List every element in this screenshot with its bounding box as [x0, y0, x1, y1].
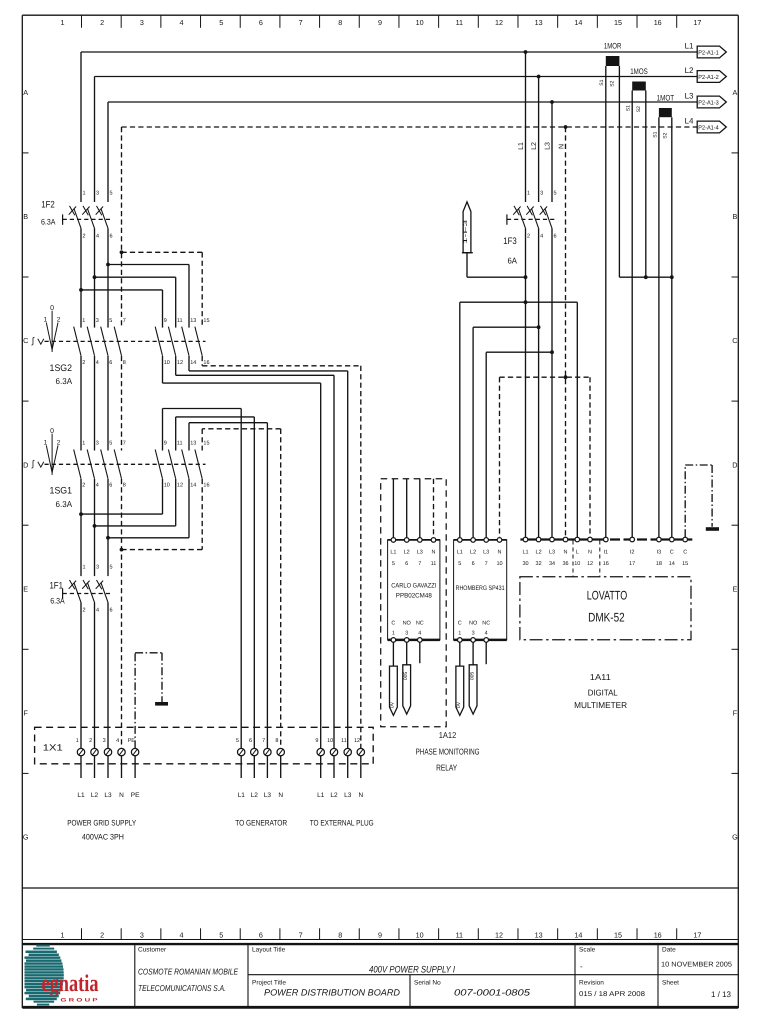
- svg-text:5: 5: [219, 930, 223, 939]
- svg-text:B: B: [23, 212, 28, 221]
- svg-text:LOVATTO: LOVATTO: [587, 589, 628, 603]
- svg-text:Sheet: Sheet: [662, 980, 679, 987]
- svg-text:I3: I3: [657, 549, 662, 555]
- svg-text:C: C: [391, 620, 395, 626]
- svg-text:S2: S2: [610, 80, 616, 86]
- svg-text:9: 9: [164, 441, 167, 447]
- svg-text:6: 6: [110, 233, 113, 239]
- svg-text:NC: NC: [416, 620, 424, 626]
- svg-text:1: 1: [61, 18, 65, 27]
- svg-text:005: 005: [469, 672, 475, 681]
- svg-text:L1: L1: [522, 549, 528, 555]
- svg-text:3: 3: [405, 630, 408, 636]
- svg-text:S1: S1: [652, 131, 658, 137]
- svg-text:1MOR: 1MOR: [604, 42, 622, 51]
- svg-text:I1: I1: [604, 549, 609, 555]
- svg-text:4: 4: [418, 630, 421, 636]
- svg-text:2: 2: [89, 738, 92, 744]
- svg-text:7: 7: [418, 561, 421, 567]
- svg-text:6: 6: [405, 561, 408, 567]
- svg-text:9: 9: [315, 738, 318, 744]
- svg-text:D: D: [23, 460, 28, 469]
- svg-text:B: B: [733, 212, 738, 221]
- svg-text:10: 10: [164, 483, 170, 489]
- svg-text:11: 11: [431, 561, 437, 567]
- svg-text:14: 14: [190, 360, 196, 366]
- svg-text:16: 16: [603, 561, 609, 567]
- svg-text:TO EXTERNAL PLUG: TO EXTERNAL PLUG: [310, 818, 374, 827]
- svg-text:5: 5: [236, 738, 239, 744]
- svg-text:10: 10: [574, 561, 580, 567]
- svg-text:N: N: [498, 549, 502, 555]
- svg-text:P2-A1-4: P2-A1-4: [698, 124, 719, 131]
- svg-text:1MOT: 1MOT: [657, 94, 675, 103]
- svg-text:1F1: 1F1: [49, 581, 63, 592]
- svg-text:DMK-52: DMK-52: [588, 611, 625, 625]
- svg-text:L1: L1: [238, 792, 246, 799]
- svg-text:1: 1: [83, 565, 86, 571]
- svg-text:13: 13: [535, 18, 543, 27]
- svg-text:PE: PE: [131, 792, 140, 799]
- svg-text:4: 4: [180, 18, 184, 27]
- svg-text:L3: L3: [104, 792, 112, 799]
- svg-text:16: 16: [654, 18, 662, 27]
- svg-text:6: 6: [109, 360, 112, 366]
- svg-text:7: 7: [299, 930, 303, 939]
- svg-text:5: 5: [110, 191, 113, 197]
- svg-text:I2: I2: [630, 549, 635, 555]
- svg-text:PPB02CM48: PPB02CM48: [396, 592, 432, 599]
- svg-text:L2: L2: [470, 549, 476, 555]
- svg-text:F: F: [24, 709, 29, 718]
- svg-text:2: 2: [57, 317, 61, 324]
- svg-text:6: 6: [259, 18, 263, 27]
- svg-text:16: 16: [203, 360, 209, 366]
- svg-text:5: 5: [392, 561, 395, 567]
- svg-text:6: 6: [472, 561, 475, 567]
- svg-text:12: 12: [495, 930, 503, 939]
- svg-text:D: D: [732, 460, 737, 469]
- svg-text:L: L: [576, 549, 579, 555]
- svg-text:E: E: [733, 584, 738, 593]
- svg-text:1F2: 1F2: [41, 200, 55, 211]
- svg-text:Project Title: Project Title: [252, 980, 286, 987]
- svg-text:RHOMBERG SP431: RHOMBERG SP431: [456, 585, 505, 592]
- svg-text:P2-A1-3: P2-A1-3: [698, 99, 719, 106]
- svg-text:L3: L3: [417, 549, 423, 555]
- svg-text:1: 1: [527, 191, 530, 197]
- svg-text:4: 4: [540, 233, 543, 239]
- svg-text:11: 11: [456, 18, 463, 27]
- svg-text:C: C: [670, 549, 674, 555]
- svg-text:18: 18: [656, 561, 662, 567]
- svg-text:S1: S1: [626, 105, 632, 111]
- svg-text:6: 6: [249, 738, 252, 744]
- svg-text:A: A: [733, 88, 738, 97]
- svg-text:COSMOTE ROMANIAN MOBILE: COSMOTE ROMANIAN MOBILE: [138, 967, 238, 977]
- svg-text:L2: L2: [330, 792, 338, 799]
- svg-text:S1: S1: [599, 79, 605, 85]
- svg-text:32: 32: [536, 561, 542, 567]
- svg-text:N: N: [119, 792, 124, 799]
- svg-text:N: N: [432, 549, 436, 555]
- svg-text:1A12: 1A12: [439, 730, 457, 740]
- svg-text:5: 5: [554, 191, 557, 197]
- svg-text:3: 3: [140, 18, 144, 27]
- svg-text:E: E: [23, 584, 28, 593]
- svg-text:3: 3: [140, 930, 144, 939]
- svg-text:3: 3: [103, 738, 106, 744]
- svg-text:11: 11: [341, 738, 347, 744]
- svg-text:4: 4: [96, 233, 99, 239]
- svg-text:11: 11: [177, 441, 183, 447]
- svg-text:L1: L1: [390, 549, 396, 555]
- svg-text:5: 5: [110, 565, 113, 571]
- svg-text:17: 17: [629, 561, 635, 567]
- svg-text:1X1: 1X1: [43, 743, 63, 753]
- svg-text:C: C: [683, 549, 687, 555]
- svg-text:36: 36: [562, 561, 568, 567]
- svg-text:0V: 0V: [390, 701, 396, 708]
- svg-text:L3: L3: [483, 549, 489, 555]
- svg-text:1-F3: 1-F3: [463, 220, 469, 244]
- svg-text:10: 10: [416, 930, 424, 939]
- svg-text:16: 16: [203, 483, 209, 489]
- svg-text:F: F: [733, 709, 738, 718]
- svg-text:L3: L3: [344, 792, 352, 799]
- svg-text:PHASE MONITORING: PHASE MONITORING: [416, 747, 480, 757]
- svg-text:Customer: Customer: [138, 947, 167, 954]
- svg-text:6.3A: 6.3A: [56, 376, 73, 386]
- svg-text:5: 5: [109, 318, 112, 324]
- svg-text:10: 10: [416, 18, 424, 27]
- svg-text:L4: L4: [685, 116, 694, 125]
- svg-text:15: 15: [614, 930, 622, 939]
- svg-text:10: 10: [164, 360, 170, 366]
- svg-text:2: 2: [57, 439, 61, 446]
- svg-text:10: 10: [327, 738, 333, 744]
- svg-text:6: 6: [554, 233, 557, 239]
- svg-text:12: 12: [354, 738, 360, 744]
- svg-text:1: 1: [392, 630, 395, 636]
- svg-text:-: -: [580, 962, 583, 971]
- svg-text:L1: L1: [685, 41, 694, 50]
- svg-text:3: 3: [96, 318, 99, 324]
- svg-text:N: N: [558, 144, 565, 149]
- svg-text:G R O U P: G R O U P: [61, 998, 99, 1004]
- svg-text:6: 6: [259, 930, 263, 939]
- svg-text:8: 8: [123, 483, 126, 489]
- svg-text:0V: 0V: [456, 701, 462, 708]
- svg-text:1: 1: [44, 317, 48, 324]
- svg-text:1A11: 1A11: [590, 672, 611, 682]
- svg-text:6.3A: 6.3A: [56, 499, 73, 509]
- svg-text:12: 12: [495, 18, 503, 27]
- svg-text:Scale: Scale: [579, 947, 596, 954]
- svg-text:L2: L2: [531, 142, 538, 150]
- svg-text:NO: NO: [403, 620, 412, 626]
- svg-text:16: 16: [654, 930, 662, 939]
- svg-text:N: N: [358, 792, 363, 799]
- svg-text:1MOS: 1MOS: [630, 67, 648, 76]
- svg-text:1: 1: [61, 930, 65, 939]
- svg-text:L1: L1: [518, 142, 525, 150]
- svg-text:4: 4: [485, 630, 488, 636]
- svg-text:400VAC 3PH: 400VAC 3PH: [82, 833, 124, 842]
- svg-text:PE: PE: [128, 738, 136, 744]
- svg-text:2: 2: [100, 18, 104, 27]
- svg-text:L2: L2: [536, 549, 542, 555]
- svg-text:L3: L3: [549, 549, 555, 555]
- svg-text:Layout Title: Layout Title: [252, 947, 286, 954]
- svg-text:015 / 18 APR 2008: 015 / 18 APR 2008: [579, 990, 645, 998]
- svg-text:9: 9: [378, 930, 382, 939]
- svg-text:Serial No: Serial No: [414, 980, 441, 987]
- svg-text:4: 4: [96, 360, 99, 366]
- svg-text:5: 5: [109, 441, 112, 447]
- svg-text:3: 3: [96, 441, 99, 447]
- svg-text:1SG1: 1SG1: [50, 486, 73, 497]
- svg-text:N: N: [564, 549, 568, 555]
- svg-text:1: 1: [44, 439, 48, 446]
- svg-text:14: 14: [669, 561, 675, 567]
- svg-text:L3: L3: [545, 142, 552, 150]
- svg-text:egnatia: egnatia: [42, 971, 99, 997]
- svg-text:15: 15: [203, 441, 209, 447]
- svg-text:11: 11: [456, 930, 463, 939]
- svg-text:8: 8: [338, 18, 342, 27]
- svg-text:2: 2: [83, 607, 86, 613]
- svg-text:C: C: [23, 336, 28, 345]
- svg-text:5: 5: [219, 18, 223, 27]
- svg-text:9: 9: [164, 318, 167, 324]
- svg-text:15: 15: [682, 561, 688, 567]
- svg-text:P2-A1-1: P2-A1-1: [698, 49, 719, 56]
- svg-text:13: 13: [535, 930, 543, 939]
- svg-text:15: 15: [203, 318, 209, 324]
- svg-text:S2: S2: [636, 106, 642, 112]
- svg-text:12: 12: [177, 483, 183, 489]
- svg-text:007-0001-0805: 007-0001-0805: [454, 988, 531, 998]
- svg-text:NC: NC: [482, 620, 490, 626]
- svg-text:L1: L1: [77, 792, 85, 799]
- svg-text:RELAY: RELAY: [436, 763, 457, 773]
- svg-text:NO: NO: [469, 620, 478, 626]
- svg-text:∫: ∫: [31, 458, 35, 468]
- svg-text:L2: L2: [251, 792, 259, 799]
- svg-text:L3: L3: [264, 792, 272, 799]
- svg-text:3: 3: [540, 191, 543, 197]
- svg-text:13: 13: [190, 318, 196, 324]
- svg-text:6.3A: 6.3A: [50, 597, 65, 606]
- svg-text:C: C: [458, 620, 462, 626]
- svg-text:2: 2: [100, 930, 104, 939]
- svg-text:8: 8: [123, 360, 126, 366]
- svg-text:14: 14: [574, 930, 582, 939]
- svg-text:L2: L2: [91, 792, 99, 799]
- svg-text:Date: Date: [662, 947, 676, 954]
- svg-text:30: 30: [522, 561, 528, 567]
- svg-text:17: 17: [693, 930, 701, 939]
- svg-text:10 NOVEMBER 2005: 10 NOVEMBER 2005: [661, 962, 732, 969]
- svg-text:6.3A: 6.3A: [41, 218, 56, 227]
- svg-text:10: 10: [496, 561, 502, 567]
- svg-text:∫: ∫: [31, 336, 35, 346]
- svg-text:400V POWER SUPPLY I: 400V POWER SUPPLY I: [369, 965, 455, 976]
- svg-text:4: 4: [180, 930, 184, 939]
- svg-text:G: G: [732, 833, 738, 842]
- svg-text:17: 17: [693, 18, 701, 27]
- svg-text:N: N: [278, 792, 283, 799]
- svg-text:4: 4: [96, 607, 99, 613]
- svg-text:6: 6: [110, 607, 113, 613]
- svg-text:G: G: [23, 833, 29, 842]
- svg-text:P2-A1-2: P2-A1-2: [698, 74, 719, 81]
- svg-text:L3: L3: [685, 91, 694, 100]
- svg-text:005: 005: [403, 672, 409, 681]
- svg-text:14: 14: [574, 18, 582, 27]
- svg-text:12: 12: [177, 360, 183, 366]
- svg-text:3: 3: [472, 630, 475, 636]
- svg-text:2: 2: [83, 233, 86, 239]
- svg-text:Revision: Revision: [579, 980, 604, 987]
- svg-text:13: 13: [190, 441, 196, 447]
- svg-text:9: 9: [378, 18, 382, 27]
- svg-text:L2: L2: [404, 549, 410, 555]
- svg-text:5: 5: [458, 561, 461, 567]
- svg-text:1: 1: [82, 441, 85, 447]
- svg-text:2: 2: [82, 360, 85, 366]
- svg-text:1F3: 1F3: [503, 236, 517, 247]
- svg-text:7: 7: [299, 18, 303, 27]
- svg-text:1SG2: 1SG2: [50, 363, 73, 374]
- svg-text:POWER DISTRIBUTION BOARD: POWER DISTRIBUTION BOARD: [264, 988, 400, 998]
- svg-text:7: 7: [123, 441, 126, 447]
- svg-text:7: 7: [262, 738, 265, 744]
- svg-text:3: 3: [96, 191, 99, 197]
- svg-text:12: 12: [587, 561, 593, 567]
- svg-text:L2: L2: [685, 66, 694, 75]
- svg-text:3: 3: [96, 565, 99, 571]
- svg-text:A: A: [23, 88, 28, 97]
- svg-text:CARLO GAVAZZI: CARLO GAVAZZI: [391, 583, 436, 590]
- svg-text:L1: L1: [317, 792, 325, 799]
- svg-text:4: 4: [116, 738, 119, 744]
- svg-text:POWER GRID SUPPLY: POWER GRID SUPPLY: [67, 818, 137, 827]
- svg-text:DIGITAL: DIGITAL: [588, 688, 618, 698]
- svg-text:TO GENERATOR: TO GENERATOR: [235, 818, 287, 827]
- svg-text:14: 14: [190, 483, 196, 489]
- svg-text:8: 8: [275, 738, 278, 744]
- svg-text:TELECOMUNICATIONS S.A.: TELECOMUNICATIONS S.A.: [138, 983, 226, 993]
- svg-text:1: 1: [83, 191, 86, 197]
- svg-text:1: 1: [82, 318, 85, 324]
- svg-text:C: C: [732, 336, 737, 345]
- svg-text:N: N: [588, 549, 592, 555]
- svg-text:1 / 13: 1 / 13: [711, 990, 732, 999]
- svg-text:1: 1: [458, 630, 461, 636]
- svg-text:S2: S2: [663, 132, 669, 138]
- svg-text:15: 15: [614, 18, 622, 27]
- svg-text:7: 7: [123, 318, 126, 324]
- svg-text:6: 6: [109, 483, 112, 489]
- svg-text:34: 34: [549, 561, 555, 567]
- svg-text:L1: L1: [457, 549, 463, 555]
- svg-text:7: 7: [485, 561, 488, 567]
- svg-text:4: 4: [96, 483, 99, 489]
- svg-text:11: 11: [177, 318, 183, 324]
- svg-text:8: 8: [338, 930, 342, 939]
- svg-text:MULTIMETER: MULTIMETER: [574, 700, 627, 710]
- svg-text:2: 2: [527, 233, 530, 239]
- svg-text:6A: 6A: [507, 256, 517, 266]
- svg-text:2: 2: [82, 483, 85, 489]
- svg-text:1: 1: [76, 738, 79, 744]
